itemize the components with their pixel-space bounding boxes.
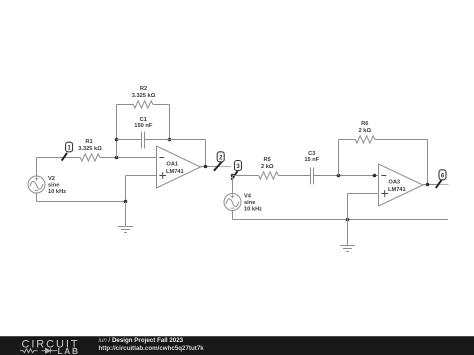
svg-text:R6: R6 — [361, 121, 368, 127]
junction at opamp input — [373, 174, 377, 178]
wire OA3 output — [423, 184, 437, 186]
svg-text:LM741: LM741 — [166, 169, 184, 175]
node 1 flag — [62, 142, 73, 160]
junction output — [204, 165, 208, 169]
op-amp OA1 — [157, 146, 201, 188]
V4 label — [244, 194, 262, 213]
wire node3 to R5 — [233, 175, 259, 177]
node 3 flag — [231, 161, 241, 180]
R2 label — [132, 86, 156, 99]
svg-text:R2: R2 — [140, 86, 147, 92]
resistor R5 — [259, 172, 279, 179]
junction OA3 output — [426, 183, 430, 187]
V2 label — [48, 176, 66, 195]
capacitor C1 — [142, 132, 145, 149]
wire C1 right lead — [145, 139, 206, 141]
wire V2 bottom — [36, 193, 38, 202]
wire plus vertical — [125, 176, 127, 202]
C1 label — [134, 117, 153, 129]
svg-text:C1: C1 — [140, 117, 147, 123]
wire R2 left lead — [117, 104, 134, 106]
wire feedback left vertical — [116, 105, 118, 158]
wire C1 left lead — [117, 139, 142, 141]
wire feedback left vertical right circuit — [338, 140, 340, 176]
ground symbol right — [340, 246, 355, 252]
wire V2 top — [36, 158, 38, 177]
R6 label — [359, 121, 372, 134]
wire R2 right vertical — [169, 105, 171, 140]
junction R2/C1 — [168, 138, 172, 142]
voltage source V4 — [224, 194, 241, 211]
wire R1 to opamp — [100, 157, 157, 159]
wire R6 left lead — [339, 139, 356, 141]
svg-text:sine: sine — [244, 200, 255, 206]
wire C3 to opamp — [314, 175, 379, 177]
wire bottom net — [37, 201, 126, 203]
svg-text:OA3: OA3 — [388, 180, 400, 186]
wire V4 top — [232, 176, 234, 194]
resistor R6 — [355, 136, 375, 143]
node 2 flag — [214, 152, 224, 171]
wire bottom net right — [233, 219, 449, 221]
footer logo squiggle — [20, 349, 57, 353]
svg-text:10 kHz: 10 kHz — [48, 189, 66, 195]
svg-text:LM741: LM741 — [388, 187, 406, 193]
svg-text:http://circuitlab.com/cwhc5q27: http://circuitlab.com/cwhc5q27tut7k — [99, 345, 205, 352]
wire R2 right lead — [153, 104, 169, 106]
junction node 3 — [231, 174, 235, 178]
junction C1 left — [115, 138, 119, 142]
wire input net — [37, 157, 81, 159]
wire R5 to C3 — [278, 175, 310, 177]
svg-text:2 kΩ: 2 kΩ — [359, 128, 372, 134]
svg-text:V4: V4 — [244, 194, 252, 200]
wire opamp plus input — [126, 175, 157, 177]
svg-text:150 nF: 150 nF — [134, 123, 153, 129]
voltage source V2 — [28, 176, 45, 193]
wire output stub — [219, 166, 232, 168]
resistor R1 — [80, 154, 100, 161]
svg-text:OA1: OA1 — [166, 162, 178, 168]
svg-text:3.325 kΩ: 3.325 kΩ — [132, 93, 156, 99]
ground stub left — [125, 202, 127, 227]
svg-text:2 kΩ: 2 kΩ — [261, 164, 274, 170]
wire feedback right vertical — [205, 140, 207, 167]
svg-text:LAB: LAB — [58, 346, 80, 355]
footer bar — [0, 336, 474, 355]
wire output stub right — [437, 184, 449, 186]
junction input/feedback — [115, 156, 119, 160]
wire OA1 output — [201, 166, 219, 168]
C3 label — [304, 151, 319, 163]
wire opamp plus input right — [348, 193, 379, 195]
R5 label — [261, 157, 274, 170]
svg-text:15 nF: 15 nF — [304, 157, 319, 163]
junction feedback tap — [337, 174, 341, 178]
R1 label — [78, 139, 102, 152]
ground symbol left — [118, 227, 133, 233]
junction bottom — [124, 200, 128, 204]
wire R6 right lead — [375, 139, 428, 141]
junction bottom right — [346, 218, 350, 222]
node 6 flag — [436, 170, 446, 188]
capacitor C3 — [311, 168, 314, 185]
wire plus vertical right — [347, 194, 349, 220]
svg-text:sine: sine — [48, 183, 59, 189]
wire feedback right vertical right circuit — [427, 140, 429, 185]
svg-text:iun / Design Project Fall 2023: iun / Design Project Fall 2023 — [99, 337, 184, 344]
svg-text:R1: R1 — [85, 139, 92, 145]
wire V4 bottom — [232, 211, 234, 220]
svg-text:10 kHz: 10 kHz — [244, 207, 262, 213]
footer logo diode — [46, 348, 51, 353]
svg-text:R5: R5 — [264, 157, 271, 163]
svg-text:3.325 kΩ: 3.325 kΩ — [78, 146, 102, 152]
resistor R2 — [133, 101, 153, 108]
op-amp OA3 — [379, 164, 424, 206]
svg-text:V2: V2 — [48, 176, 55, 182]
ground stub right — [347, 220, 349, 246]
